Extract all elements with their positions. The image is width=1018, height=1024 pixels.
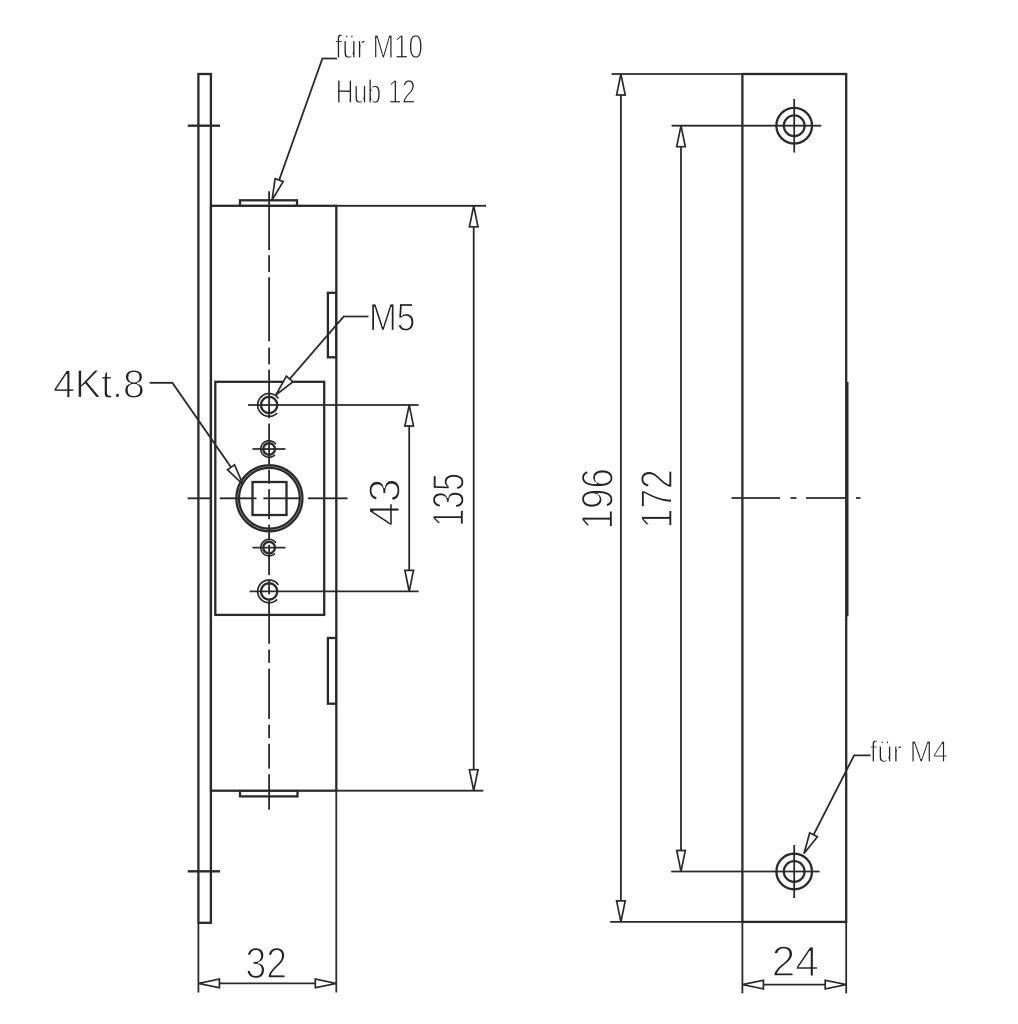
svg-text:M5: M5: [369, 295, 415, 339]
svg-text:135: 135: [425, 473, 474, 527]
horizontal centerline through square hub: [188, 497, 348, 499]
label fuer M10 leader: [268, 59, 337, 202]
vertical centerline: [268, 191, 270, 809]
extension line left (24): [741, 922, 743, 994]
svg-text:Hub 12: Hub 12: [336, 74, 416, 111]
plate horizontal centerline: [732, 497, 861, 499]
top screw hole fuer M4: [776, 99, 812, 153]
lower latch block: [328, 638, 336, 704]
faceplate break tick lower: [188, 870, 220, 872]
extension line left (32): [197, 923, 199, 993]
upper latch block: [328, 293, 336, 358]
extension line top (172): [672, 125, 822, 127]
faceplate break tick upper: [188, 125, 220, 127]
bottom screw hole fuer M4: [776, 845, 812, 898]
faceplate edge view (left strip): [198, 74, 211, 923]
lock case edge behind plate: [847, 382, 849, 616]
svg-text:4Kt.8: 4Kt.8: [53, 362, 145, 407]
extension line bottom (172): [671, 871, 819, 873]
inner lock case rectangle: [215, 382, 324, 615]
extension line bottom (135): [336, 790, 483, 792]
extension line top (196): [612, 73, 743, 75]
svg-text:für M4: für M4: [870, 734, 949, 769]
dimension line 43: [405, 405, 414, 591]
svg-text:196: 196: [574, 468, 623, 529]
M5 threaded hole (top): [248, 394, 419, 417]
dimension line 172: [677, 126, 686, 872]
top guide tab: [240, 200, 297, 206]
svg-text:43: 43: [362, 479, 410, 527]
square spindle hole 4Kt.8: [253, 482, 287, 515]
svg-text:24: 24: [772, 938, 819, 986]
bottom threaded hole: [250, 580, 419, 603]
extension line top (135): [336, 205, 486, 207]
svg-text:32: 32: [246, 939, 288, 988]
small threaded hole upper: [253, 441, 286, 458]
label M5 leader: [273, 317, 369, 398]
extension line right (32): [335, 791, 337, 993]
label 4Kt.8 leader: [150, 383, 247, 487]
dimension line 24: [742, 980, 846, 989]
dimension line 196: [617, 74, 626, 922]
small threaded hole lower: [253, 539, 286, 556]
label fuer M4 leader: [800, 755, 870, 855]
svg-text:172: 172: [633, 469, 682, 528]
bottom guide tab: [240, 791, 298, 797]
dimension line 32: [198, 979, 336, 988]
dimension line 135: [469, 206, 478, 791]
extension line bottom (196): [610, 921, 742, 923]
svg-text:für M10: für M10: [335, 29, 423, 66]
lock body outline: [211, 206, 336, 791]
cover plate front view: [742, 74, 846, 922]
square spindle hub collar circles: [236, 465, 302, 531]
extension line right (24): [845, 922, 847, 994]
